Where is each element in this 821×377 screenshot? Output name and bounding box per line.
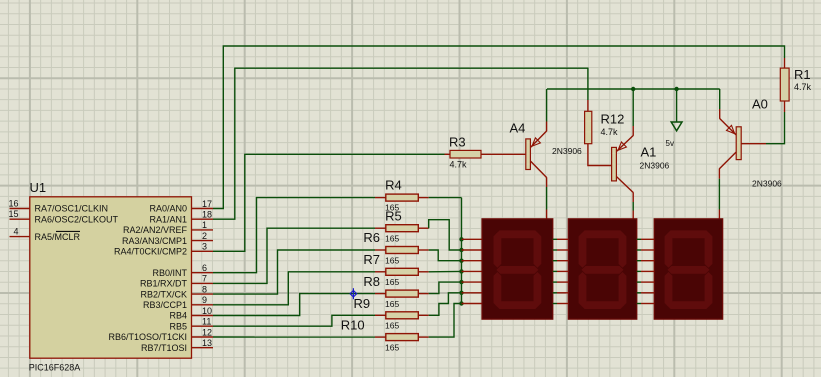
wire DISP1 to DISP2 segment g	[553, 303, 569, 305]
svg-text:RB0/INT: RB0/INT	[152, 268, 187, 278]
svg-text:3: 3	[202, 242, 207, 252]
power symbol 5v	[671, 89, 682, 131]
junction dot segment net d	[459, 269, 463, 273]
U1 pin 9 stub (RB3/CCP1)	[192, 304, 214, 306]
U1 pin 17 stub (RA0/AN0)	[192, 208, 214, 210]
editor origin cursor marker	[350, 288, 357, 299]
svg-text:165: 165	[385, 203, 399, 213]
resistor R12 body	[585, 100, 592, 144]
svg-text:165: 165	[385, 342, 399, 352]
U1 pin 13 stub (RB7/T1OSI)	[192, 347, 214, 349]
wire R10 to segment bus	[429, 304, 462, 338]
wire A1 collector to DISP2 common pin	[632, 192, 634, 219]
7-segment display DISP2 body	[568, 219, 637, 319]
transistor A4 2N3906 (PNP)	[526, 131, 547, 178]
segment bus vertical wire	[461, 198, 463, 304]
wire DISP1 to DISP2 segment c	[553, 260, 569, 262]
U1 pin 6 stub (RB0/INT)	[192, 272, 214, 274]
svg-text:R7: R7	[363, 252, 380, 267]
svg-text:RA4/T0CKI/CMP2: RA4/T0CKI/CMP2	[114, 247, 187, 257]
U1 pin 8 stub (RB2/TX/CK)	[192, 293, 214, 295]
svg-text:RA7/OSC1/CLKIN: RA7/OSC1/CLKIN	[35, 204, 109, 214]
wire DISP2 to DISP3 segment f	[637, 292, 654, 294]
svg-text:RB4: RB4	[169, 311, 187, 321]
svg-text:9: 9	[202, 295, 207, 305]
U1 pin 2 stub (RA3/AN3/CMP1)	[192, 240, 214, 242]
resistor R4 body	[375, 194, 429, 201]
svg-text:6: 6	[202, 263, 207, 273]
U1 pin 3 stub (RA4/T0CKI/CMP2)	[192, 250, 214, 252]
svg-text:5v: 5v	[666, 139, 674, 148]
svg-text:4.7k: 4.7k	[601, 127, 619, 137]
7-segment display DISP1 body	[482, 219, 553, 319]
U1 pin 16 stub (RA7/OSC1/CLKIN)	[10, 208, 30, 210]
svg-text:10: 10	[202, 306, 212, 316]
resistor R10 body	[375, 334, 429, 341]
wire DISP2 to DISP3 segment e	[637, 281, 654, 283]
wire pin12 RB6 to R10	[213, 336, 375, 338]
svg-text:R4: R4	[385, 177, 402, 192]
svg-text:165: 165	[385, 233, 399, 243]
svg-text:7: 7	[202, 274, 207, 284]
svg-text:RA3/AN3/CMP1: RA3/AN3/CMP1	[122, 236, 187, 246]
display DISP1 segment pin b stub	[462, 249, 483, 251]
wire R4 to segment bus	[429, 197, 462, 199]
U1 pin 1 stub (RA2/AN2/VREF)	[192, 229, 214, 231]
wire DISP1 to DISP2 segment a	[553, 238, 569, 240]
svg-text:1: 1	[202, 220, 207, 230]
transistor A1 2N3906 (PNP)	[612, 136, 634, 193]
svg-text:A4: A4	[510, 120, 526, 135]
svg-text:R1: R1	[794, 67, 811, 82]
wire pin6 RB0 to R4	[213, 198, 375, 273]
svg-text:U1: U1	[30, 180, 47, 195]
junction dot 5v on rail	[674, 87, 678, 91]
svg-text:R10: R10	[341, 318, 365, 333]
svg-text:165: 165	[385, 255, 399, 265]
transistor A0 2N3906 (PNP, mirrored)	[719, 119, 741, 169]
svg-text:17: 17	[202, 199, 212, 209]
wire A4 collector to DISP1 common pin	[546, 177, 548, 219]
wire pin7 RB1 to R5	[213, 228, 375, 283]
svg-text:RB2/TX/CK: RB2/TX/CK	[140, 289, 187, 299]
svg-text:RB1/RX/DT: RB1/RX/DT	[140, 279, 188, 289]
wire DISP2 to DISP3 segment a	[637, 238, 654, 240]
svg-text:4.7k: 4.7k	[450, 160, 468, 170]
svg-text:15: 15	[8, 209, 18, 219]
wire pin3 RA4 to R3	[213, 154, 445, 251]
U1 pin 7 stub (RB1/RX/DT)	[192, 282, 214, 284]
U1 pin 10 stub (RB4)	[192, 315, 214, 317]
svg-text:11: 11	[202, 317, 211, 327]
resistor R3 body	[445, 150, 526, 158]
display DISP1 segment pin c stub	[462, 260, 483, 262]
svg-text:16: 16	[8, 199, 18, 209]
wire 5v emitter rail	[547, 88, 720, 90]
7-segment display DISP3 body	[654, 219, 723, 319]
junction dot segment net b	[459, 248, 463, 252]
svg-text:RB5: RB5	[169, 321, 187, 331]
resistor R6 body	[375, 247, 429, 254]
wire DISP2 to DISP3 segment c	[637, 260, 654, 262]
display DISP1 segment pin d stub	[462, 270, 483, 272]
svg-text:RB7/T1OSI: RB7/T1OSI	[141, 343, 187, 353]
wire pin8 RB2 to R6	[213, 250, 375, 294]
wire R6 to segment bus	[429, 250, 462, 261]
wire pin18 RA1 to R12 (net A1SEL)	[213, 68, 588, 219]
svg-text:RB3/CCP1: RB3/CCP1	[143, 300, 187, 310]
svg-text:RA0/AN0: RA0/AN0	[149, 204, 187, 214]
display DISP1 segment pin e stub	[462, 281, 483, 283]
U1 pin 18 stub (RA1/AN1)	[192, 218, 214, 220]
wire DISP2 to DISP3 segment d	[637, 270, 654, 272]
svg-text:4.7k: 4.7k	[794, 82, 812, 92]
wire pin9 RB3 to R7	[213, 272, 375, 305]
svg-text:R8: R8	[363, 274, 380, 289]
wire DISP2 to DISP3 segment b	[637, 249, 654, 251]
wire A4 emitter to 5v rail	[546, 89, 548, 131]
svg-text:RB6/T1OSO/T1CKI: RB6/T1OSO/T1CKI	[108, 332, 187, 342]
svg-text:PIC16F628A: PIC16F628A	[29, 362, 81, 372]
display DISP1 segment pin f stub	[462, 292, 483, 294]
overline on MCLR	[56, 230, 80, 232]
svg-text:2: 2	[202, 231, 207, 241]
junction dot segment net f	[459, 291, 463, 295]
display DISP1 segment pin a stub	[462, 238, 483, 240]
svg-text:2N3906: 2N3906	[640, 161, 670, 171]
wire A1 emitter to 5v rail	[632, 89, 634, 136]
svg-text:2N3906: 2N3906	[752, 179, 782, 189]
wire rail to A0 emitter	[719, 89, 721, 119]
wire R9 to segment bus	[429, 293, 462, 316]
svg-text:165: 165	[385, 321, 399, 331]
U1 pin 12 stub (RB6/T1OSO/T1CKI)	[192, 336, 214, 338]
microcontroller U1 PIC16F628A body	[30, 197, 192, 358]
wire DISP1 to DISP2 segment b	[553, 249, 569, 251]
svg-text:RA6/OSC2/CLKOUT: RA6/OSC2/CLKOUT	[35, 214, 119, 224]
svg-text:18: 18	[202, 210, 212, 220]
wire R5 to segment bus	[429, 220, 462, 250]
svg-text:12: 12	[202, 327, 212, 337]
resistor R9 body	[375, 312, 429, 319]
svg-text:165: 165	[385, 277, 399, 287]
resistor R7 body	[375, 268, 429, 275]
svg-text:RA2/AN2/VREF: RA2/AN2/VREF	[123, 225, 188, 235]
svg-text:RA5/MCLR: RA5/MCLR	[35, 232, 81, 242]
display DISP1 segment pin g stub	[462, 303, 483, 305]
svg-text:165: 165	[385, 299, 399, 309]
junction dot segment net a	[459, 237, 463, 241]
svg-text:R9: R9	[354, 296, 371, 311]
wire DISP2 to DISP3 segment g	[637, 303, 654, 305]
junction dot A1 emitter on 5v rail	[631, 87, 635, 91]
wire DISP1 to DISP2 segment e	[553, 281, 569, 283]
wire DISP1 to DISP2 segment d	[553, 270, 569, 272]
wire A0 collector to DISP3 common pin	[718, 169, 720, 220]
wire A0 base to R1	[741, 112, 784, 144]
svg-text:R6: R6	[363, 230, 380, 245]
wire pin17 RA0 to R1 (net A0SEL)	[213, 46, 785, 209]
wire R7 to segment bus	[429, 270, 462, 272]
svg-text:13: 13	[202, 338, 212, 348]
wire R12 to A1 base	[588, 144, 612, 166]
junction dot segment net e	[459, 280, 463, 284]
resistor R8 body	[375, 290, 429, 297]
U1 pin 11 stub (RB5)	[192, 325, 214, 327]
wire pin10 RB4 to R8	[213, 294, 375, 316]
resistor R1 body	[780, 58, 789, 112]
svg-text:R12: R12	[601, 112, 625, 127]
svg-text:A1: A1	[641, 145, 657, 160]
U1 pin 15 stub (RA6/OSC2/CLKOUT)	[10, 218, 30, 220]
svg-text:4: 4	[13, 227, 18, 237]
junction dot segment net c	[459, 259, 463, 263]
resistor R5 body	[375, 225, 429, 232]
svg-text:2N3906: 2N3906	[552, 146, 582, 156]
svg-text:RA1/AN1: RA1/AN1	[149, 214, 187, 224]
svg-text:8: 8	[202, 284, 207, 294]
wire R8 to segment bus	[429, 282, 462, 294]
junction dot segment net g	[459, 301, 463, 305]
wire pin11 RB5 to R9	[213, 315, 375, 326]
U1 pin 4 stub (RA5/MCLR)	[10, 236, 30, 238]
svg-text:A0: A0	[752, 97, 768, 112]
svg-text:R3: R3	[449, 135, 466, 150]
wire DISP1 to DISP2 segment f	[553, 292, 569, 294]
